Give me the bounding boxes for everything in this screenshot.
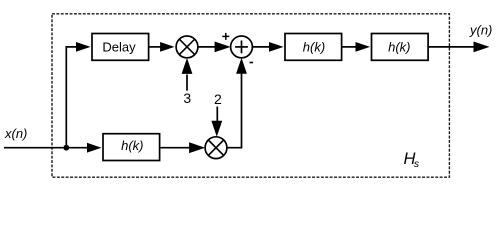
svg-text:h(k): h(k) [303,39,325,54]
arrowhead into second h(k) [356,42,371,52]
wire input x(n) [4,147,89,149]
block Delay [92,34,149,61]
arrowhead up into M1 [182,58,193,74]
wire coefficient 2 into M2 [216,107,218,122]
adder A1 [231,36,253,58]
arrowhead into bottom h(k) [87,143,102,153]
arrowhead into Delay [76,42,91,52]
wire junction up to Delay [66,47,77,148]
arrowhead output [474,42,490,53]
block h(k) first [285,34,342,61]
svg-text:h(k): h(k) [388,39,410,54]
arrowhead into adder A1 [215,42,231,53]
dashed boundary of system H_s [52,14,449,177]
wire coefficient 3 into M1 [186,75,188,91]
arrowhead down into M2 [211,121,222,137]
arrowhead into multiplier M1 [160,42,174,52]
arrowhead up into adder A1 [236,58,247,74]
multiplier M1 (gain 3) [176,36,198,58]
label - at adder bottom input [250,62,254,64]
wire first h(k) to second h(k) [342,46,357,48]
wire output y(n) [428,46,474,48]
svg-text:y(n): y(n) [469,23,492,38]
label + at adder input [222,33,229,40]
wire bottom h(k) to multiplier M2 [160,147,190,149]
svg-text:h(k): h(k) [121,138,143,153]
arrowhead into first h(k) [269,42,284,52]
node junction on input [63,145,69,151]
wire adder to first h(k) [252,46,270,48]
arrowhead into multiplier M2 [189,142,205,153]
svg-text:3: 3 [183,90,191,106]
svg-text:Delay: Delay [102,39,136,54]
wire M1 to adder A1 [198,46,216,48]
wire M2 up to adder A1 [227,73,242,148]
block h(k) bottom [103,134,160,161]
svg-text:2: 2 [214,91,222,107]
multiplier M2 (gain 2) [205,137,227,159]
wire Delay to multiplier M1 [149,46,161,48]
block h(k) second [372,34,429,61]
svg-text:x(n): x(n) [4,126,27,141]
